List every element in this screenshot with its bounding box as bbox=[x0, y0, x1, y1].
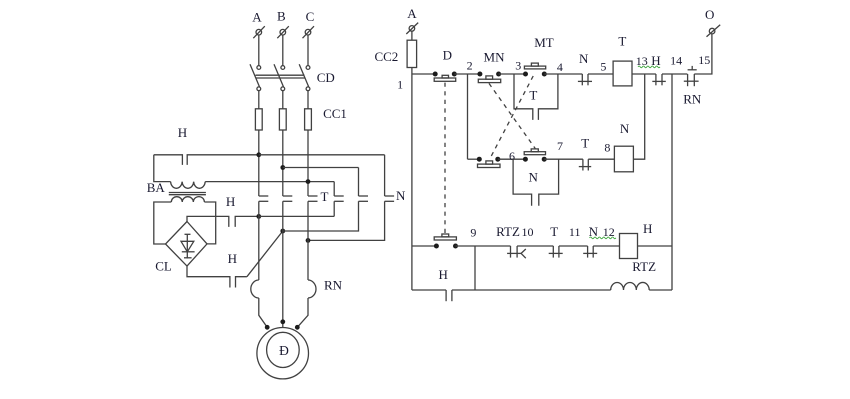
node DC- on motor wire V bbox=[280, 229, 285, 234]
svg-text:N: N bbox=[620, 121, 630, 136]
svg-text:T: T bbox=[550, 224, 558, 239]
stop button D bbox=[433, 47, 457, 81]
wire node 14 bbox=[662, 53, 687, 74]
contactor T main contact phase A bbox=[259, 196, 269, 201]
interlock contact N (NC) row1 bbox=[578, 51, 592, 85]
control terminal O bbox=[705, 7, 720, 37]
wire coil T to contact H over node 13 bbox=[632, 54, 656, 74]
contactor N main contact 3 bbox=[385, 188, 406, 203]
svg-text:14: 14 bbox=[670, 53, 682, 67]
wire N column 3 bbox=[308, 155, 385, 241]
coil RTZ (time relay) bbox=[611, 282, 650, 290]
svg-text:B: B bbox=[277, 8, 286, 23]
svg-text:7: 7 bbox=[557, 139, 563, 153]
node 1 / left control rail bbox=[397, 68, 412, 291]
node DC+ on motor wire U bbox=[256, 214, 261, 219]
wire fuse A down bbox=[258, 130, 260, 196]
bottom bus middle bbox=[452, 289, 611, 291]
svg-text:4: 4 bbox=[557, 60, 563, 74]
wire node 12 to coil H bbox=[593, 245, 619, 247]
rail node 14 down to bottom bus bbox=[671, 74, 673, 290]
wire fuse C down bbox=[307, 130, 309, 196]
mechanical link MT to lower NO contact bbox=[489, 76, 533, 160]
node phase B bus bbox=[280, 165, 285, 170]
fuse CC1 phase C bbox=[305, 109, 312, 130]
svg-text:CC1: CC1 bbox=[323, 106, 347, 121]
wire N column 1 bbox=[333, 182, 335, 217]
contactor T main contact phase C bbox=[308, 189, 329, 204]
svg-text:RTZ: RTZ bbox=[496, 224, 520, 239]
wire B terminal to CD bbox=[282, 35, 284, 66]
wire terminal A to fuse CC2 bbox=[411, 31, 413, 40]
motor terminal nodes bbox=[265, 319, 300, 329]
wire row2 from node2 to MN lower bbox=[468, 158, 480, 160]
interlock contact N (NC) row9 bbox=[583, 224, 615, 257]
wire BA secondary right to CL bbox=[204, 202, 215, 244]
svg-text:CL: CL bbox=[155, 258, 172, 273]
svg-text:5: 5 bbox=[600, 59, 606, 73]
button MN lower NC contact bbox=[477, 157, 501, 168]
svg-text:T: T bbox=[529, 88, 537, 103]
svg-text:RN: RN bbox=[683, 92, 702, 107]
coil N bbox=[614, 121, 633, 172]
svg-text:11: 11 bbox=[569, 225, 581, 239]
svg-text:C: C bbox=[306, 9, 315, 24]
transformer BA secondary bbox=[171, 197, 204, 202]
svg-text:10: 10 bbox=[522, 225, 534, 239]
motor D bbox=[257, 328, 309, 379]
holding contact H (NO) bottom bbox=[439, 267, 452, 301]
svg-text:H: H bbox=[439, 267, 448, 282]
svg-text:N: N bbox=[529, 170, 539, 185]
holding contact T branch bbox=[514, 74, 558, 120]
wire node 7 to T interlock bbox=[544, 139, 583, 159]
contactor N main contact 2 bbox=[359, 196, 369, 201]
contact H lower (braking DC-) bbox=[228, 251, 247, 287]
svg-text:RN: RN bbox=[324, 277, 343, 292]
svg-text:H: H bbox=[651, 53, 660, 68]
wire H bus down to BA primary bbox=[154, 155, 171, 182]
svg-text:H: H bbox=[228, 251, 237, 266]
phase terminal B bbox=[277, 8, 289, 38]
rectifier CL bridge bbox=[155, 222, 207, 274]
wire node 2 rail down to row 2 bbox=[467, 74, 469, 159]
svg-text:H: H bbox=[178, 125, 187, 140]
coil T bbox=[613, 34, 632, 86]
svg-text:Đ: Đ bbox=[279, 343, 289, 358]
mechanical link MN to lower NC contact bbox=[489, 83, 535, 148]
svg-text:MN: MN bbox=[484, 50, 506, 65]
contact H upper (braking DC+) bbox=[226, 194, 259, 227]
svg-text:RTZ: RTZ bbox=[632, 259, 656, 274]
svg-text:3: 3 bbox=[515, 59, 521, 73]
svg-text:N: N bbox=[396, 188, 406, 203]
wire C terminal to CD bbox=[307, 35, 309, 66]
svg-text:9: 9 bbox=[470, 226, 476, 240]
wire coil H to node14 rail bbox=[638, 245, 673, 247]
svg-text:A: A bbox=[407, 6, 417, 21]
wire CL bottom to H lower contact bbox=[187, 266, 230, 287]
wire phase B bus to N column bbox=[283, 167, 359, 169]
wire node 5 to coil T bbox=[588, 59, 613, 74]
transformer BA core bbox=[147, 180, 206, 195]
wire N column 2 bbox=[283, 168, 359, 232]
wire motor lead U with RN heater bbox=[251, 201, 267, 327]
wire A terminal to CD bbox=[258, 35, 260, 66]
wire fuse B down bbox=[282, 130, 284, 196]
node 9 rail down to bus bbox=[474, 246, 476, 290]
node phase C bus bbox=[306, 179, 311, 184]
button MT NC contact bbox=[523, 35, 554, 77]
svg-text:H: H bbox=[643, 221, 652, 236]
thermal contact RN (NC with reset) bbox=[683, 66, 702, 107]
wire node 11 bbox=[559, 225, 588, 246]
start button MN bbox=[477, 50, 505, 83]
coil H bbox=[620, 221, 657, 274]
interlock contact T (NC) row9 bbox=[549, 224, 563, 258]
wire node 9 to RTZ contact bbox=[456, 226, 511, 246]
contact H (NC) row1 bbox=[651, 53, 665, 85]
wire motor lead V bbox=[282, 201, 284, 327]
svg-text:A: A bbox=[252, 9, 262, 24]
contact H left (to BA primary) bbox=[154, 125, 259, 165]
wire RTZ to T contact bbox=[517, 245, 553, 247]
wire BA secondary left to CL bbox=[154, 202, 172, 244]
knife switch CD bbox=[250, 64, 335, 91]
svg-text:BA: BA bbox=[147, 180, 166, 195]
wire row1 node1 to button D bbox=[412, 73, 435, 75]
wire BA primary to phase C bus bbox=[205, 181, 334, 183]
wire coil N to node 13 rail bbox=[633, 74, 644, 159]
svg-text:2: 2 bbox=[467, 58, 473, 72]
wire node 8 to coil N bbox=[588, 140, 614, 159]
button MT lower NO contact bbox=[523, 149, 547, 162]
node phase A / H bus bbox=[256, 152, 261, 157]
svg-text:O: O bbox=[705, 7, 714, 22]
svg-text:CD: CD bbox=[317, 70, 335, 85]
svg-text:6: 6 bbox=[509, 149, 515, 163]
transformer BA primary bbox=[171, 182, 206, 189]
svg-text:CC2: CC2 bbox=[374, 49, 398, 64]
button D lower NO contact bbox=[434, 234, 458, 249]
time-delay contact RTZ (NC delayed) bbox=[496, 224, 533, 258]
svg-text:1: 1 bbox=[397, 78, 403, 92]
contactor T main contact phase B bbox=[283, 196, 293, 201]
spellcheck squiggle under 13 H bbox=[638, 66, 660, 68]
spellcheck squiggle under N 12 bbox=[590, 237, 616, 239]
svg-text:8: 8 bbox=[604, 140, 610, 154]
contactor N main contact 1 bbox=[334, 196, 344, 201]
wire node 6 bbox=[498, 149, 526, 163]
wire MT to N interlock over node 4 bbox=[544, 60, 582, 74]
wire CL top to H contact bbox=[187, 216, 229, 227]
wire DC+ bus to N contact column bbox=[259, 215, 334, 217]
holding contact N branch bbox=[513, 159, 559, 206]
svg-text:13: 13 bbox=[636, 54, 648, 68]
wire D to MN over node 2 bbox=[454, 58, 480, 74]
svg-text:H: H bbox=[226, 194, 235, 209]
wire DC- diagonal to motor wire V bbox=[247, 231, 283, 277]
mechanical link D bbox=[444, 83, 446, 234]
wire phase A bus to N column bbox=[259, 154, 385, 156]
svg-text:N: N bbox=[579, 51, 589, 66]
fuse CC1 phase B bbox=[279, 109, 286, 130]
wire node 15 up to terminal O bbox=[694, 34, 712, 74]
fuse CC1 phase A bbox=[255, 109, 262, 130]
fuse CC2 bbox=[374, 40, 416, 67]
svg-text:T: T bbox=[321, 189, 329, 204]
phase terminal C bbox=[303, 9, 315, 38]
svg-text:MT: MT bbox=[534, 35, 554, 50]
svg-text:T: T bbox=[618, 34, 626, 49]
phase terminal A bbox=[252, 9, 265, 38]
svg-text:T: T bbox=[581, 136, 589, 151]
svg-text:D: D bbox=[443, 47, 452, 62]
svg-text:15: 15 bbox=[698, 53, 710, 67]
interlock contact T (NC) row2 bbox=[579, 136, 591, 171]
bottom bus left bbox=[412, 289, 446, 291]
node phase C lower bbox=[306, 238, 311, 243]
wire motor lead W with RN heater bbox=[297, 201, 342, 327]
bottom bus right bbox=[649, 289, 672, 291]
wire MN to MT over node 3 bbox=[499, 59, 526, 74]
control terminal A bbox=[406, 6, 418, 34]
wire row9 from left rail to button D lower bbox=[412, 245, 437, 247]
wire CD to fuses bbox=[258, 91, 260, 109]
